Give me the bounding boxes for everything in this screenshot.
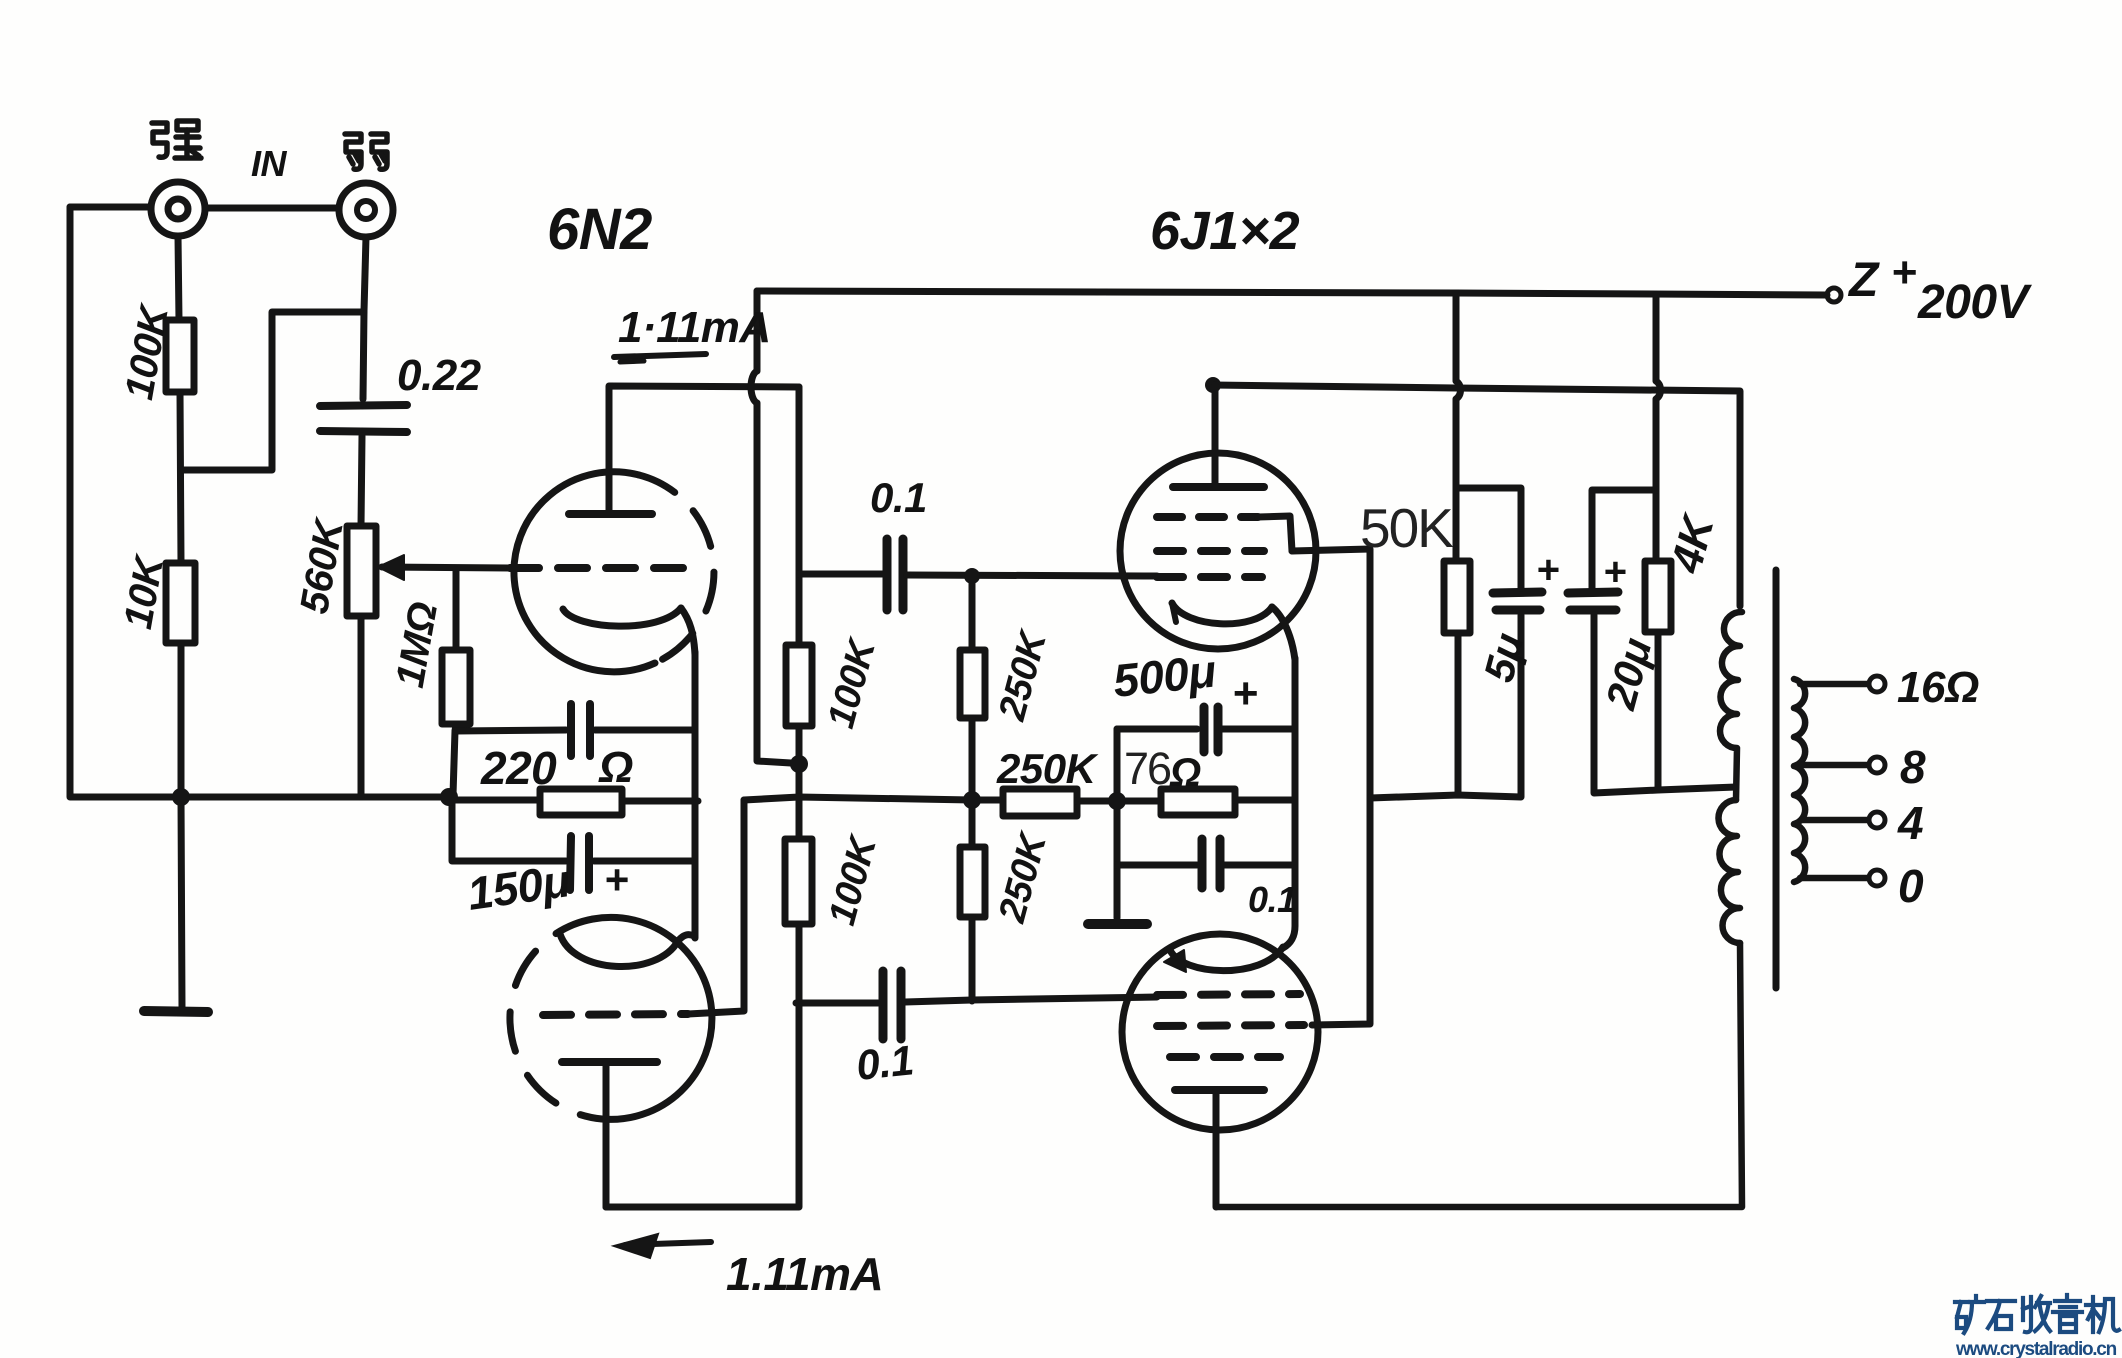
- svg-text:0.22: 0.22: [397, 351, 482, 400]
- svg-text:100K: 100K: [820, 633, 884, 733]
- svg-text:50K: 50K: [1360, 497, 1454, 559]
- svg-text:0.1: 0.1: [870, 474, 927, 521]
- svg-text:8: 8: [1900, 741, 1926, 793]
- svg-text:0: 0: [1898, 860, 1924, 912]
- svg-text:20μ: 20μ: [1596, 633, 1660, 714]
- svg-text:220: 220: [480, 742, 557, 794]
- svg-text:+: +: [1536, 548, 1559, 592]
- svg-text:560K: 560K: [292, 514, 352, 617]
- svg-text:250K: 250K: [991, 827, 1056, 928]
- svg-text:6J1×2: 6J1×2: [1150, 201, 1300, 261]
- svg-text:IN: IN: [251, 143, 288, 184]
- svg-text:1·11mA: 1·11mA: [618, 303, 771, 352]
- svg-text:+: +: [1891, 248, 1916, 297]
- svg-text:16Ω: 16Ω: [1897, 663, 1979, 712]
- svg-text:0.1: 0.1: [854, 1036, 915, 1089]
- svg-text:4: 4: [1897, 797, 1923, 849]
- svg-text:6N2: 6N2: [547, 197, 652, 262]
- svg-text:Ω: Ω: [1169, 751, 1201, 795]
- svg-text:250K: 250K: [996, 745, 1099, 792]
- svg-text:1.11mA: 1.11mA: [726, 1248, 883, 1300]
- svg-text:100K: 100K: [821, 830, 885, 930]
- svg-text:www.crystalradio.cn: www.crystalradio.cn: [1955, 1339, 2117, 1358]
- svg-text:0.1: 0.1: [1248, 879, 1297, 920]
- svg-text:200V: 200V: [1917, 276, 2033, 329]
- svg-text:Z: Z: [1847, 254, 1880, 307]
- svg-text:1MΩ: 1MΩ: [388, 599, 446, 691]
- svg-text:76: 76: [1124, 743, 1171, 794]
- svg-text:+: +: [1232, 669, 1257, 718]
- svg-text:250K: 250K: [991, 625, 1056, 726]
- svg-text:Ω: Ω: [598, 743, 633, 792]
- svg-text:+: +: [604, 856, 628, 903]
- svg-text:4K: 4K: [1661, 508, 1724, 579]
- svg-text:+: +: [1603, 550, 1626, 594]
- svg-text:500μ: 500μ: [1111, 644, 1219, 707]
